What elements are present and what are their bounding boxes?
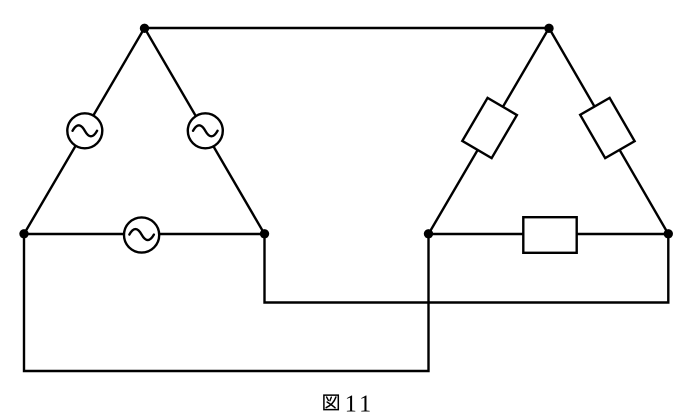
impedance Z1: [462, 98, 517, 158]
wire right triangle edge N4-N6: [549, 28, 668, 234]
wire left triangle edge N1-N2: [24, 28, 145, 234]
wire left return N2 down-right-up to N5: [24, 234, 429, 371]
node N1: [140, 24, 149, 33]
impedance Z3: [523, 217, 576, 253]
caption 図 11: [324, 391, 374, 417]
ac source V2: [188, 113, 223, 148]
node N4: [544, 24, 553, 33]
impedance Z2: [580, 98, 634, 158]
svg-text:11: 11: [345, 391, 375, 417]
wire left triangle edge N1-N3: [145, 28, 265, 234]
node N6: [664, 229, 673, 238]
wire top bus N1-N4: [145, 27, 550, 29]
wire left triangle bottom edge N2-N3: [24, 233, 265, 235]
node N3: [260, 229, 269, 238]
node N2: [19, 229, 28, 238]
wire middle return N3 down-right-up to N6: [265, 234, 669, 303]
node N5: [424, 229, 433, 238]
wire right triangle edge N4-N5: [429, 28, 550, 234]
ac source V3: [124, 217, 159, 252]
ac source V1: [67, 113, 102, 148]
wire right triangle bottom edge N5-N6: [429, 233, 669, 235]
